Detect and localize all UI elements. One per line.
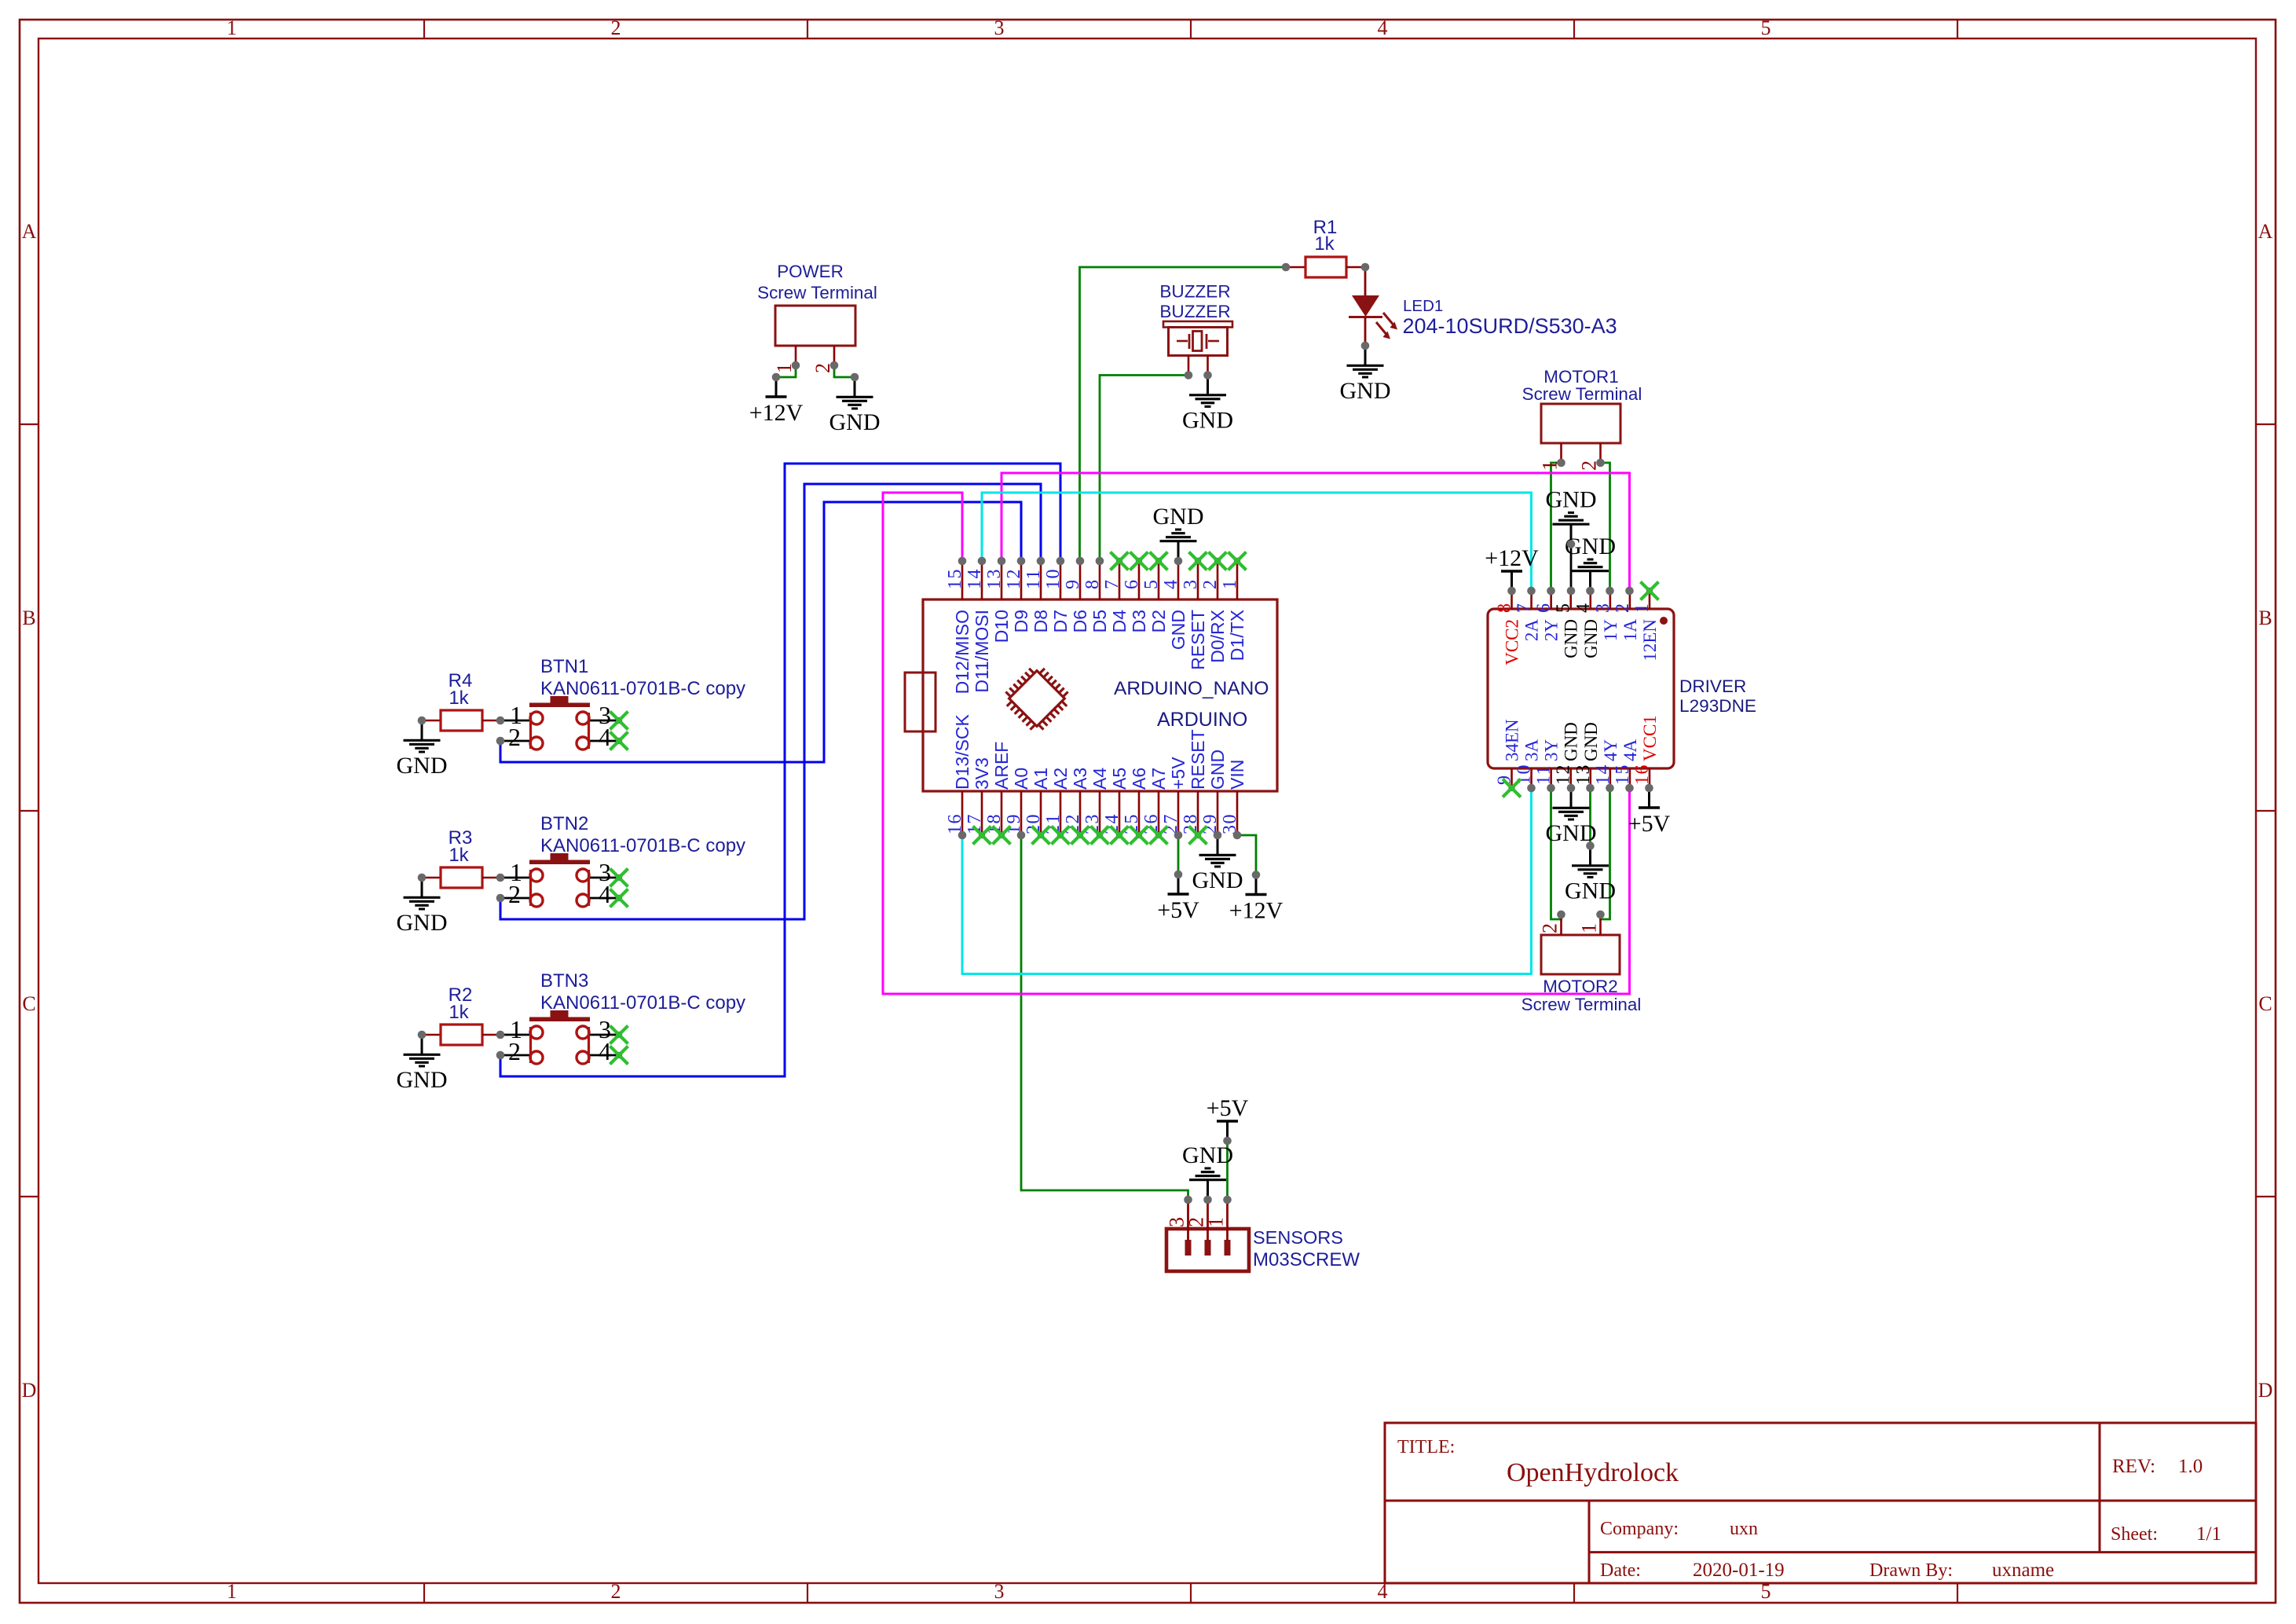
svg-text:3A: 3A: [1522, 739, 1542, 762]
svg-text:AREF: AREF: [991, 742, 1012, 790]
svg-text:2: 2: [508, 723, 521, 751]
svg-text:7: 7: [1102, 579, 1122, 590]
svg-text:204-10SURD/S530-A3: 204-10SURD/S530-A3: [1403, 314, 1617, 338]
svg-text:3: 3: [1593, 603, 1613, 614]
svg-text:GND: GND: [1562, 722, 1581, 761]
svg-text:POWER: POWER: [777, 262, 844, 281]
svg-text:6: 6: [1122, 579, 1142, 590]
svg-text:1k: 1k: [449, 687, 469, 709]
svg-text:34EN: 34EN: [1503, 719, 1522, 761]
svg-text:D5: D5: [1089, 610, 1110, 632]
svg-text:2: 2: [508, 880, 521, 908]
svg-text:8: 8: [1495, 603, 1515, 614]
svg-text:+5V: +5V: [1157, 897, 1199, 923]
svg-text:GND: GND: [1182, 1142, 1233, 1168]
svg-text:BTN3: BTN3: [540, 970, 588, 992]
svg-text:ARDUINO_NANO: ARDUINO_NANO: [1114, 678, 1269, 699]
svg-text:1/1: 1/1: [2196, 1523, 2221, 1545]
svg-text:4: 4: [599, 880, 611, 908]
svg-text:1k: 1k: [1314, 233, 1335, 255]
svg-text:Drawn By:: Drawn By:: [1869, 1560, 1953, 1581]
svg-text:6: 6: [1534, 603, 1554, 614]
svg-text:7: 7: [1514, 603, 1535, 614]
svg-text:KAN0611-0701B-C copy: KAN0611-0701B-C copy: [540, 992, 745, 1014]
svg-text:VCC2: VCC2: [1503, 619, 1522, 665]
svg-text:12: 12: [1554, 764, 1574, 785]
svg-text:16: 16: [1632, 764, 1653, 785]
svg-text:1: 1: [227, 1580, 237, 1603]
svg-text:D3: D3: [1129, 610, 1149, 632]
svg-text:C: C: [22, 992, 35, 1015]
svg-text:15: 15: [1613, 764, 1633, 785]
svg-text:GND: GND: [397, 910, 448, 936]
svg-text:C: C: [2258, 992, 2272, 1015]
svg-text:+12V: +12V: [1229, 898, 1283, 924]
svg-text:M03SCREW: M03SCREW: [1253, 1249, 1360, 1270]
svg-text:GND: GND: [1562, 619, 1581, 658]
svg-text:2020-01-19: 2020-01-19: [1693, 1560, 1785, 1581]
svg-text:A2: A2: [1050, 768, 1071, 790]
svg-text:GND: GND: [1207, 750, 1228, 790]
svg-text:A0: A0: [1011, 768, 1031, 790]
svg-text:B: B: [22, 607, 35, 629]
svg-text:D10: D10: [991, 610, 1012, 643]
svg-text:1A: 1A: [1620, 619, 1640, 642]
svg-text:1: 1: [1205, 1217, 1228, 1227]
svg-text:12: 12: [1004, 568, 1024, 589]
svg-text:1: 1: [1578, 923, 1601, 933]
svg-text:RESET: RESET: [1188, 610, 1208, 670]
svg-text:1.0: 1.0: [2178, 1456, 2203, 1477]
svg-text:17: 17: [965, 813, 985, 834]
svg-text:D7: D7: [1050, 610, 1071, 632]
svg-text:+5V: +5V: [1168, 757, 1188, 790]
svg-text:14: 14: [965, 568, 985, 589]
svg-text:4: 4: [599, 723, 611, 751]
svg-text:9: 9: [1063, 579, 1083, 590]
svg-text:15: 15: [945, 568, 965, 589]
svg-text:13: 13: [1573, 764, 1594, 785]
svg-text:D6: D6: [1070, 610, 1090, 632]
svg-text:A4: A4: [1089, 768, 1110, 790]
svg-text:A7: A7: [1148, 768, 1169, 790]
svg-text:BTN2: BTN2: [540, 813, 588, 834]
svg-text:2: 2: [611, 16, 621, 39]
svg-text:GND: GND: [1182, 408, 1233, 434]
svg-text:Screw Terminal: Screw Terminal: [757, 283, 877, 302]
svg-text:OpenHydrolock: OpenHydrolock: [1507, 1458, 1679, 1487]
svg-text:Date:: Date:: [1600, 1560, 1641, 1581]
svg-text:GND: GND: [1581, 722, 1601, 761]
svg-text:2A: 2A: [1522, 619, 1542, 642]
svg-text:uxn: uxn: [1730, 1519, 1758, 1539]
svg-text:Screw Terminal: Screw Terminal: [1522, 995, 1642, 1014]
svg-text:L293DNE: L293DNE: [1679, 696, 1756, 716]
svg-text:LED1: LED1: [1403, 297, 1443, 315]
svg-text:28: 28: [1181, 813, 1201, 834]
svg-text:D9: D9: [1011, 610, 1031, 632]
svg-text:D2: D2: [1148, 610, 1169, 632]
svg-text:GND: GND: [1168, 610, 1188, 650]
svg-text:11: 11: [1534, 764, 1554, 785]
svg-text:5: 5: [1141, 579, 1162, 590]
svg-text:11: 11: [1023, 569, 1044, 589]
svg-text:B: B: [2258, 607, 2272, 629]
svg-text:8: 8: [1082, 579, 1103, 590]
svg-text:13: 13: [984, 568, 1005, 589]
svg-text:GND: GND: [397, 1067, 448, 1093]
svg-text:5: 5: [1554, 603, 1574, 614]
svg-text:1: 1: [1632, 603, 1653, 614]
svg-text:2Y: 2Y: [1542, 619, 1562, 642]
svg-text:4: 4: [1161, 579, 1181, 590]
svg-text:+5V: +5V: [1207, 1095, 1249, 1121]
svg-text:RESET: RESET: [1188, 729, 1208, 790]
svg-text:ARDUINO: ARDUINO: [1157, 709, 1247, 731]
svg-text:D12/MISO: D12/MISO: [952, 610, 972, 694]
svg-text:GND: GND: [1153, 504, 1204, 530]
svg-text:GND: GND: [1546, 487, 1597, 513]
svg-text:+5V: +5V: [1628, 811, 1671, 837]
svg-text:uxname: uxname: [1992, 1560, 2054, 1581]
svg-text:3: 3: [1181, 579, 1201, 590]
svg-text:D0/RX: D0/RX: [1207, 610, 1228, 663]
svg-text:4: 4: [599, 1037, 611, 1065]
svg-text:A6: A6: [1129, 768, 1149, 790]
svg-text:GND: GND: [1192, 867, 1243, 893]
svg-text:GND: GND: [829, 409, 881, 435]
svg-text:14: 14: [1593, 764, 1613, 785]
svg-text:D: D: [22, 1379, 37, 1402]
svg-text:TITLE:: TITLE:: [1397, 1437, 1455, 1457]
svg-text:4: 4: [1378, 16, 1388, 39]
svg-text:VCC1: VCC1: [1640, 715, 1660, 761]
svg-text:D11/MOSI: D11/MOSI: [972, 610, 992, 693]
svg-text:1: 1: [1220, 579, 1240, 590]
svg-text:1Y: 1Y: [1601, 619, 1620, 642]
svg-text:12EN: 12EN: [1640, 619, 1660, 662]
svg-text:GND: GND: [1340, 378, 1391, 404]
svg-text:+12V: +12V: [749, 400, 804, 426]
svg-text:SENSORS: SENSORS: [1253, 1227, 1343, 1248]
svg-text:3Y: 3Y: [1542, 739, 1562, 762]
svg-text:GND: GND: [1581, 619, 1601, 658]
svg-text:VIN: VIN: [1227, 760, 1247, 790]
svg-text:2: 2: [611, 1580, 621, 1603]
svg-text:20: 20: [1023, 813, 1044, 834]
svg-text:D4: D4: [1109, 610, 1130, 633]
svg-text:5: 5: [1761, 16, 1771, 39]
svg-text:A: A: [2258, 220, 2273, 243]
svg-text:BUZZER: BUZZER: [1159, 302, 1230, 321]
svg-text:10: 10: [1043, 568, 1064, 589]
svg-text:KAN0611-0701B-C copy: KAN0611-0701B-C copy: [540, 835, 745, 856]
svg-text:+12V: +12V: [1485, 545, 1539, 571]
svg-text:3: 3: [994, 1580, 1005, 1603]
svg-text:1k: 1k: [449, 1002, 469, 1023]
svg-text:Screw Terminal: Screw Terminal: [1522, 384, 1642, 404]
svg-text:2: 2: [508, 1037, 521, 1065]
svg-text:3V3: 3V3: [972, 757, 992, 790]
svg-text:BUZZER: BUZZER: [1159, 282, 1230, 302]
svg-text:D13/SCK: D13/SCK: [952, 713, 972, 790]
svg-text:GND: GND: [397, 753, 448, 779]
svg-text:D8: D8: [1031, 610, 1051, 632]
svg-text:3: 3: [994, 16, 1005, 39]
svg-text:2: 2: [1613, 603, 1633, 614]
svg-text:BTN1: BTN1: [540, 656, 588, 677]
svg-text:A1: A1: [1031, 768, 1051, 790]
svg-text:DRIVER: DRIVER: [1679, 676, 1746, 696]
svg-text:REV:: REV:: [2112, 1456, 2155, 1477]
svg-text:KAN0611-0701B-C copy: KAN0611-0701B-C copy: [540, 678, 745, 699]
svg-text:A3: A3: [1070, 768, 1090, 790]
svg-text:A5: A5: [1109, 768, 1130, 790]
svg-text:D1/TX: D1/TX: [1227, 610, 1247, 661]
svg-text:D: D: [2258, 1379, 2273, 1402]
svg-text:4A: 4A: [1620, 739, 1640, 762]
svg-text:GND: GND: [1565, 878, 1616, 904]
svg-text:Company:: Company:: [1600, 1519, 1679, 1539]
svg-text:1: 1: [227, 16, 237, 39]
svg-text:4: 4: [1573, 603, 1594, 614]
svg-text:2: 2: [1539, 923, 1562, 933]
svg-text:1k: 1k: [449, 845, 469, 866]
svg-text:Sheet:: Sheet:: [2111, 1524, 2158, 1545]
svg-text:2: 2: [1200, 579, 1221, 590]
svg-text:MOTOR2: MOTOR2: [1543, 977, 1617, 996]
svg-text:4Y: 4Y: [1601, 739, 1620, 762]
svg-text:A: A: [22, 220, 37, 243]
